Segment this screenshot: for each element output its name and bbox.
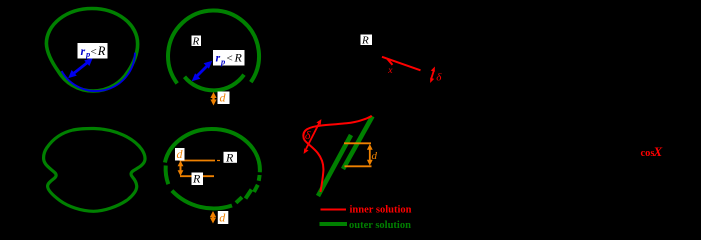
outer solution line upper [343, 116, 373, 169]
label box r_p < R [213, 50, 245, 66]
red delta double arrow [306, 124, 319, 150]
orange d arrow [212, 95, 214, 103]
label box d upper [175, 148, 185, 161]
inner solution red curve [303, 116, 371, 192]
svg-text:R: R [361, 35, 369, 47]
svg-text:R: R [234, 51, 243, 65]
svg-text:δ: δ [436, 72, 442, 84]
svg-text:R: R [192, 36, 200, 48]
svg-text:X: X [653, 144, 663, 159]
svg-text:p: p [220, 56, 225, 66]
label box r_p < R [78, 43, 108, 59]
blue arc r_p [62, 53, 135, 91]
legend inner line [321, 209, 347, 211]
inner displaced arc dash 1 [236, 197, 242, 203]
orange radius line lower [180, 175, 214, 177]
blue double arrow [74, 63, 88, 74]
label box R right [224, 152, 238, 163]
figure B: circle with matched bottom arc [168, 11, 259, 106]
delta double arrow [431, 70, 434, 80]
svg-text:R: R [97, 44, 106, 58]
outline (deformed circle) [46, 8, 137, 91]
outer R arc main segment [165, 129, 260, 172]
svg-text:inner solution: inner solution [350, 205, 412, 216]
label box R lower [192, 173, 204, 186]
orange vertical double arrow d [180, 163, 182, 174]
outline [44, 128, 145, 211]
label box d [218, 92, 230, 105]
svg-text:R: R [225, 150, 234, 164]
red line [382, 57, 421, 71]
figure E: boundary-layer plot [303, 116, 411, 231]
svg-text:outer solution: outer solution [349, 220, 411, 231]
outer R arc dashed tail [257, 175, 262, 181]
svg-text:p: p [85, 49, 90, 59]
r_p arc [185, 75, 245, 91]
figure C: pinched circle bottom-left [44, 128, 145, 211]
inner displaced arc solid [172, 191, 232, 209]
svg-text:<: < [91, 46, 97, 58]
svg-text:<: < [227, 52, 233, 64]
orange vertical double arrow d [369, 147, 371, 164]
outer R arc left lower segment [166, 166, 169, 185]
orange radius line upper [180, 160, 216, 162]
svg-text:d: d [372, 150, 378, 162]
figure D: circle with displaced bottom arc [165, 129, 260, 225]
small tick arrow [387, 59, 393, 65]
svg-text:x: x [387, 66, 393, 76]
orange bracket bottom line [345, 165, 372, 167]
inner displaced arc dash 3 [254, 185, 258, 192]
label box d bottom [218, 211, 229, 224]
label box R [192, 36, 202, 47]
svg-text:δ: δ [305, 128, 311, 142]
orange bracket top line [344, 142, 371, 144]
figure A: perturbed circle top-left [46, 8, 137, 91]
figure F: zoomed detail top-right [361, 35, 443, 84]
legend outer line [320, 222, 348, 226]
svg-text:d: d [219, 211, 226, 225]
cos X label far right [641, 144, 663, 159]
svg-text:r: r [216, 51, 221, 65]
svg-text:R: R [192, 172, 201, 186]
svg-text:d: d [177, 147, 184, 161]
svg-text:r: r [81, 44, 86, 58]
R arc [168, 11, 259, 84]
svg-text:cos: cos [641, 148, 655, 159]
outer solution line lower [318, 135, 351, 196]
bottom orange d arrow [212, 214, 214, 221]
inner displaced arc dash 2 [246, 190, 252, 199]
label box R [361, 35, 373, 46]
svg-text:d: d [220, 91, 227, 105]
blue double arrow [197, 66, 208, 77]
